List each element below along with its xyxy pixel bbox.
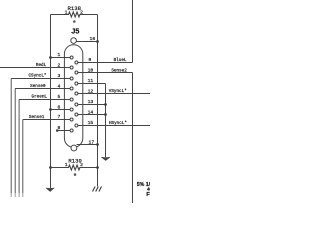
svg-text:Sense2: Sense2	[111, 69, 127, 74]
wire BlueL vertical to top edge	[132, 0, 134, 63]
wire pin 3 CSyncL*	[11, 78, 70, 80]
wire pin 13	[78, 104, 106, 106]
wire pin 2 RedL	[0, 67, 70, 69]
wire sync ground vertical	[105, 84, 107, 158]
node pin8 stub dot	[56, 129, 59, 132]
svg-text:7: 7	[57, 114, 60, 120]
svg-text:Sense0: Sense0	[30, 84, 46, 89]
ground (arrow) left	[46, 188, 54, 192]
svg-text:14: 14	[88, 110, 94, 116]
wire Sense2 vertical to bottom edge	[132, 73, 134, 204]
wire pin 10 Sense2	[78, 72, 133, 74]
R138 value mark	[73, 20, 76, 23]
svg-text:RedL: RedL	[36, 63, 47, 68]
J5 shell bottom circle (pin 17)	[71, 145, 77, 151]
wire pin 9 BlueL	[78, 62, 133, 64]
svg-text:1: 1	[65, 162, 68, 168]
junction R139 pin1/ground net	[49, 166, 52, 169]
ground (arrow) sync	[101, 157, 110, 160]
svg-text:1: 1	[65, 9, 68, 15]
junction pin16/shell net	[96, 40, 99, 43]
svg-text:13: 13	[88, 99, 94, 105]
J5 left pin circles 1-8	[70, 56, 73, 132]
svg-text:1: 1	[57, 52, 60, 58]
connector J5 body	[64, 45, 82, 148]
svg-text:F: F	[146, 192, 150, 198]
svg-text:16: 16	[90, 36, 96, 42]
svg-text:17: 17	[89, 139, 95, 145]
wire: ground net vertical from R138 pin1 down to ground symbol	[50, 15, 52, 189]
wire GreenL vertical	[18, 100, 20, 194]
wire pin 16	[76, 41, 97, 43]
svg-text:Sense1: Sense1	[29, 115, 45, 120]
svg-text:15: 15	[88, 120, 94, 126]
svg-text:11: 11	[88, 78, 94, 84]
svg-text:5: 5	[57, 94, 60, 100]
svg-text:8: 8	[57, 125, 60, 131]
svg-text:2: 2	[80, 9, 83, 15]
wire pin 1	[51, 57, 71, 59]
svg-text:HSyncL*: HSyncL*	[109, 121, 127, 126]
junction pin1/ground net	[49, 56, 52, 59]
wire Sense0 vertical	[14, 89, 16, 194]
junction pin17/shell net	[96, 143, 99, 146]
J5 shell top circle (pin 16)	[71, 38, 77, 44]
ground (chassis) shell	[93, 187, 102, 192]
svg-text:4: 4	[57, 83, 60, 89]
wire pin 17	[77, 144, 98, 146]
wire pin 7 Sense1	[23, 119, 70, 121]
R139 value mark	[74, 173, 77, 176]
junction pin13/sync ground	[104, 103, 107, 106]
wire pin 12 VSyncL*	[78, 93, 150, 95]
wire pin 6	[51, 109, 71, 111]
wire: shell net vertical from R138 pin2 down to chassis ground	[97, 15, 99, 187]
J5 right pin circles 9-15	[75, 61, 78, 127]
wire CSyncL* vertical	[10, 79, 12, 194]
junction R139 pin2/shell net	[96, 166, 99, 169]
svg-text:GreenL: GreenL	[32, 95, 48, 100]
svg-text:3: 3	[57, 73, 60, 79]
svg-text:9: 9	[88, 57, 91, 63]
svg-text:J5: J5	[71, 27, 79, 36]
junction pin14/sync ground	[104, 113, 107, 116]
svg-text:R138: R138	[68, 5, 81, 12]
wire pin 14	[78, 114, 106, 116]
svg-text:BlueL: BlueL	[114, 58, 127, 63]
wire pin 15 HSyncL*	[78, 125, 150, 127]
resistor R139 (with wire stubs to junctions)	[51, 165, 98, 170]
wire pin 4 Sense0	[15, 88, 70, 90]
wire pin 5 GreenL	[19, 99, 70, 101]
svg-text:2: 2	[80, 162, 83, 168]
svg-text:12: 12	[88, 89, 94, 95]
svg-text:VSyncL*: VSyncL*	[109, 89, 127, 94]
wire Sense1 vertical	[22, 120, 24, 194]
resistor R138 (with wire stubs to corners)	[51, 12, 98, 17]
junction pin6/ground net	[49, 108, 52, 111]
wire pin 11	[78, 83, 106, 85]
svg-text:2: 2	[57, 62, 60, 68]
svg-text:6: 6	[57, 104, 60, 110]
svg-text:10: 10	[88, 68, 94, 74]
wire pin 8 stub	[57, 130, 70, 132]
svg-text:CSyncL*: CSyncL*	[28, 74, 46, 79]
